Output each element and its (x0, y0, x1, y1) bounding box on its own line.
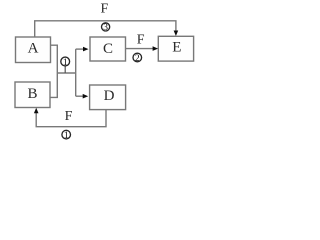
wire B right to junction (50, 73, 57, 97)
svg-text:B: B (27, 86, 37, 102)
wire bottom feedback D to B (36, 110, 106, 127)
wire arrow into C (76, 48, 85, 50)
wire C to E (126, 48, 155, 50)
svg-text:A: A (28, 41, 39, 57)
box C (90, 37, 126, 61)
svg-text:3: 3 (103, 23, 108, 33)
box E (158, 36, 193, 61)
box B (15, 82, 50, 108)
wire distribution vertical (75, 49, 77, 96)
circled 1 junction with stub (61, 57, 70, 73)
circled 2 (133, 53, 142, 64)
svg-text:1: 1 (63, 58, 68, 68)
svg-text:D: D (104, 88, 115, 104)
box D (90, 85, 126, 110)
circled 1 bottom (62, 130, 71, 141)
wire A right to junction (51, 45, 58, 73)
wire junction horizontal (57, 72, 75, 74)
svg-text:F: F (65, 109, 73, 124)
arrowhead into E top (174, 31, 179, 37)
svg-text:F: F (137, 33, 145, 48)
box A (16, 37, 51, 63)
svg-text:F: F (101, 1, 109, 16)
svg-text:C: C (103, 41, 113, 57)
svg-text:2: 2 (135, 54, 140, 64)
svg-text:E: E (172, 40, 181, 56)
wire top feedback A to E (35, 21, 176, 37)
arrowhead into B bottom (34, 108, 39, 114)
circled 3 (102, 23, 110, 33)
wire arrow into D (76, 95, 85, 97)
svg-text:1: 1 (64, 131, 69, 141)
